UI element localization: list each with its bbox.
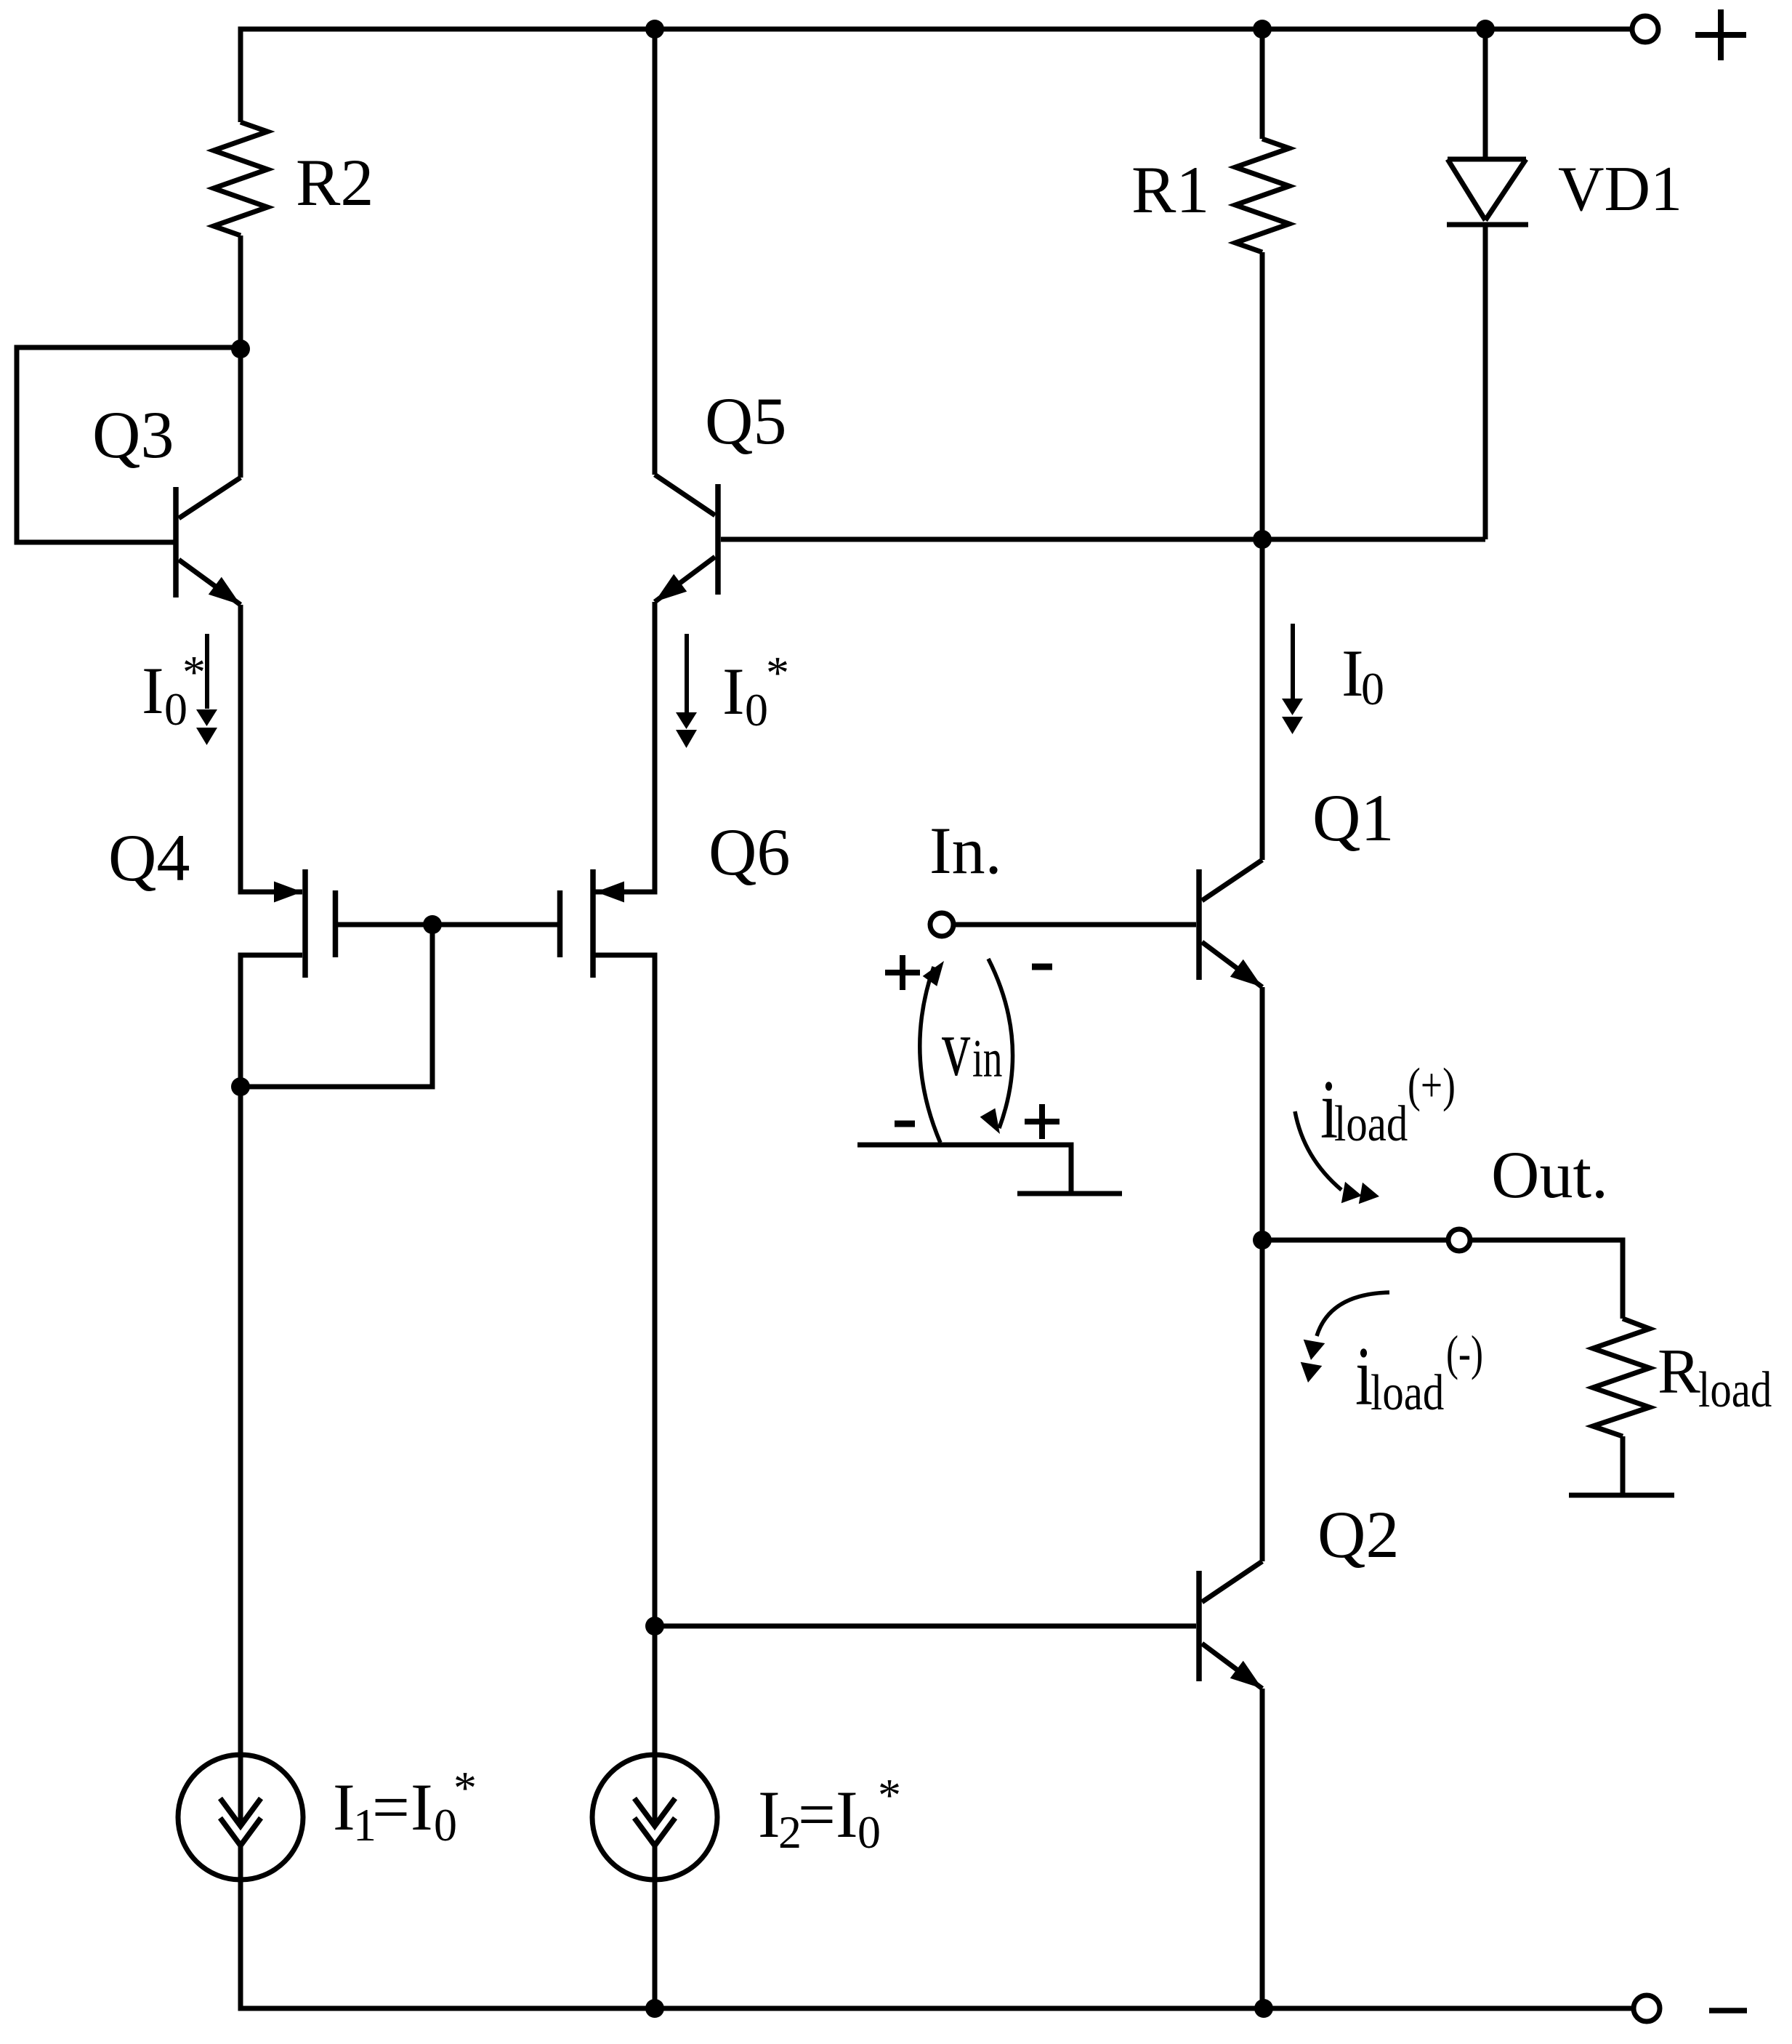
svg-text:load: load	[1334, 1095, 1408, 1151]
svg-text:I: I	[333, 1770, 355, 1844]
svg-text:0: 0	[745, 684, 768, 736]
svg-text:0: 0	[1361, 663, 1384, 715]
svg-text:I: I	[411, 1770, 433, 1844]
svg-text:In.: In.	[929, 813, 1002, 888]
svg-text:*: *	[766, 647, 789, 699]
svg-text:R2: R2	[296, 145, 374, 220]
svg-text:*: *	[182, 646, 206, 698]
svg-text:(-): (-)	[1446, 1326, 1483, 1381]
svg-text:I: I	[722, 654, 745, 728]
svg-text:Q6: Q6	[709, 815, 790, 889]
svg-text:in: in	[972, 1029, 1002, 1088]
svg-text:(+): (+)	[1408, 1058, 1456, 1112]
svg-text:v: v	[942, 1002, 971, 1093]
svg-text:Out.: Out.	[1491, 1138, 1608, 1212]
svg-text:*: *	[878, 1769, 901, 1821]
svg-text:Q5: Q5	[705, 384, 786, 458]
svg-text:R1: R1	[1131, 153, 1209, 227]
svg-text:Q3: Q3	[92, 398, 174, 472]
svg-text:=: =	[372, 1770, 410, 1844]
svg-text:VD1: VD1	[1558, 154, 1682, 225]
svg-text:Q4: Q4	[108, 821, 190, 895]
svg-text:load: load	[1698, 1361, 1772, 1417]
svg-text:R: R	[1658, 1337, 1700, 1407]
svg-text:Q2: Q2	[1317, 1497, 1399, 1572]
svg-text:*: *	[453, 1762, 477, 1814]
svg-text:I: I	[758, 1777, 780, 1851]
svg-text:I: I	[142, 653, 164, 728]
svg-text:load: load	[1371, 1364, 1444, 1420]
svg-text:Q1: Q1	[1312, 781, 1394, 855]
svg-text:I: I	[836, 1777, 858, 1851]
svg-text:=: =	[798, 1777, 836, 1851]
